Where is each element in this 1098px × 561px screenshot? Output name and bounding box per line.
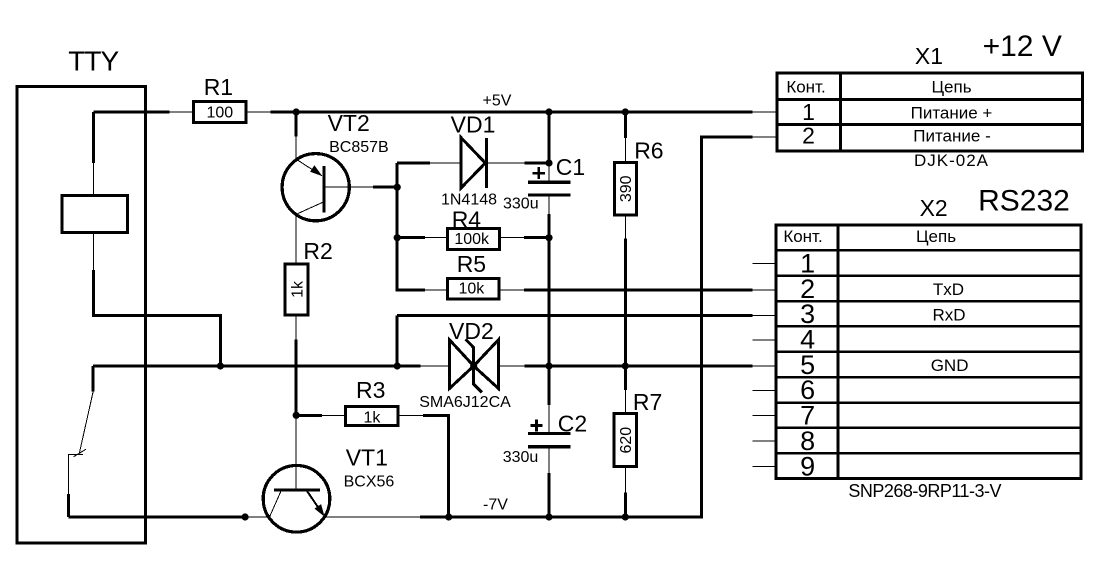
wire +5V rail [246, 111, 778, 113]
svg-text:R5: R5 [457, 251, 486, 277]
svg-text:Конт.: Конт. [783, 227, 822, 246]
wire -7V bottom rail [68, 137, 778, 517]
wire R7 column [624, 366, 627, 517]
switch contact in TTY [68, 366, 93, 517]
resistor R5 [447, 251, 499, 299]
svg-text:VT1: VT1 [346, 445, 388, 471]
svg-text:9: 9 [800, 451, 815, 481]
wire C2 column [548, 366, 551, 517]
node R3/-7V junction [445, 513, 452, 520]
svg-text:1: 1 [802, 99, 815, 125]
svg-text:1k: 1k [289, 280, 306, 298]
node +5V/C1 junction [545, 108, 552, 115]
svg-text:Конт.: Конт. [786, 78, 825, 97]
svg-text:100k: 100k [454, 231, 490, 248]
node GND row / C1-C2 column [545, 362, 552, 369]
wire VT2 base lead [324, 186, 397, 188]
connector X2 table [776, 225, 1081, 481]
node R4/C1 junction [545, 234, 552, 241]
svg-text:RS232: RS232 [978, 184, 1070, 217]
svg-text:R2: R2 [303, 238, 332, 264]
svg-text:+12 V: +12 V [983, 30, 1062, 63]
X2 pin stub 3 [752, 315, 776, 317]
svg-text:100: 100 [206, 105, 233, 122]
svg-text:BC857B: BC857B [329, 139, 389, 156]
wire C1 column [548, 112, 551, 366]
svg-text:VD2: VD2 [449, 318, 494, 344]
resistor R1 [194, 74, 247, 123]
node C2/-7V junction [545, 513, 552, 520]
svg-text:390: 390 [618, 175, 635, 202]
resistor R3 [346, 377, 398, 426]
svg-text:Питание -: Питание - [913, 127, 991, 146]
diode VD2 TVS [419, 318, 511, 411]
node GND row / R6-R7 column [622, 362, 629, 369]
svg-text:2: 2 [802, 123, 815, 149]
svg-text:620: 620 [618, 427, 635, 454]
transistor VT2 [282, 110, 389, 221]
svg-text:X1: X1 [915, 43, 943, 69]
wire VD1 row [397, 162, 549, 165]
svg-text:R4: R4 [452, 206, 482, 232]
X2 pin stub 8 [752, 440, 776, 442]
svg-text:TTY: TTY [68, 46, 119, 77]
capacitor C1 [503, 154, 585, 213]
svg-text:R1: R1 [204, 74, 233, 100]
wire R4 row [397, 236, 549, 239]
wire TxD row from R5 to X2 pin 2 [499, 289, 777, 291]
svg-text:DJK-02A: DJK-02A [914, 151, 989, 170]
node R1/VT2 junction [293, 108, 300, 115]
svg-text:SNP268-9RP11-3-V: SNP268-9RP11-3-V [848, 481, 1001, 501]
wire R2 bottom to R3 node [295, 315, 297, 415]
wire R3 left lead [296, 414, 346, 417]
X2 pin stub 7 [752, 415, 776, 417]
X2 pin stub 1 [752, 262, 776, 264]
X2 pin stub 4 [752, 339, 776, 341]
wire GND row (TTY switch to X2 pin 5) [93, 365, 777, 368]
wire VT2 collector to R2 [295, 214, 297, 263]
connector X1 table [777, 73, 1083, 151]
wire base-network vertical bus [397, 163, 447, 290]
svg-text:Питание +: Питание + [911, 104, 993, 123]
svg-text:10k: 10k [459, 281, 486, 298]
node R7/-7V junction [622, 513, 629, 520]
wire RxD row to X2 pin 3 [397, 316, 777, 367]
X2 pin stub 5 [752, 365, 776, 367]
X2 pin stub 9 [752, 466, 776, 468]
resistor R4 [447, 206, 499, 249]
X2 pin stub 2 [752, 289, 776, 291]
wire R3 right to -7V rail [398, 415, 449, 517]
resistor R6 [615, 138, 664, 215]
svg-text:TxD: TxD [933, 280, 964, 299]
svg-text:330u: 330u [503, 449, 539, 466]
node R2/R3/VT1 base junction [293, 412, 300, 419]
svg-text:-7V: -7V [483, 497, 508, 514]
node VD2 center junction [470, 362, 477, 369]
svg-text:1k: 1k [363, 409, 381, 426]
node +5V/R6 junction [622, 108, 629, 115]
wire VT2 emitter to +5V node [295, 112, 298, 160]
svg-text:Цепь: Цепь [916, 227, 956, 246]
svg-text:VD1: VD1 [451, 112, 496, 138]
relay coil inside TTY [62, 196, 128, 233]
svg-text:SMA6J12CA: SMA6J12CA [419, 394, 511, 411]
svg-text:330u: 330u [503, 196, 539, 213]
svg-text:+5V: +5V [483, 93, 512, 110]
svg-text:Цепь: Цепь [931, 78, 971, 97]
node RxD to GND-row junction [394, 362, 401, 369]
svg-text:X2: X2 [920, 195, 948, 221]
node TTY return junction [217, 362, 224, 369]
svg-text:RxD: RxD [932, 305, 965, 324]
X2 pin stub 6 [752, 390, 776, 392]
resistor R7 [614, 389, 662, 467]
svg-text:R6: R6 [634, 138, 663, 164]
wire relay coil bottom to TTY exit [94, 233, 221, 367]
wire R6 column [624, 112, 627, 366]
wire TTY top output to R1 [94, 111, 194, 114]
resistor R2 [285, 238, 333, 315]
svg-text:VT2: VT2 [328, 110, 370, 136]
node VD1/C1 junction [545, 159, 552, 166]
svg-text:R3: R3 [356, 377, 385, 403]
transistor VT1 [263, 415, 394, 532]
wire TTY inner vertical to relay coil [92, 112, 95, 196]
node VT1 collector / -7V rail [242, 513, 249, 520]
capacitor C2 [503, 411, 588, 466]
TTY device box [17, 87, 146, 544]
diode VD1 [441, 112, 497, 209]
node base bus / R4 [394, 234, 401, 241]
svg-text:C1: C1 [556, 154, 585, 180]
node base bus / VT2 base [394, 184, 401, 191]
svg-text:C2: C2 [558, 411, 587, 437]
svg-text:R7: R7 [633, 389, 662, 415]
svg-text:BCX56: BCX56 [344, 474, 395, 491]
svg-text:GND: GND [931, 356, 969, 375]
